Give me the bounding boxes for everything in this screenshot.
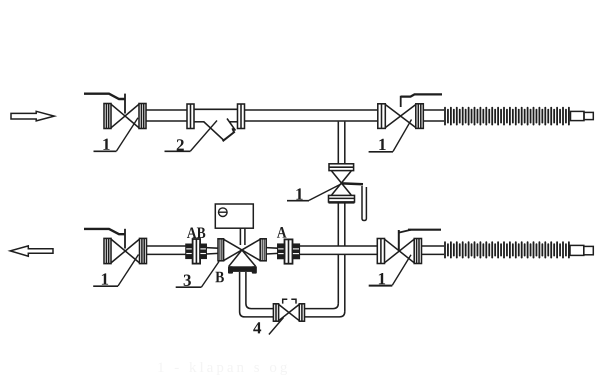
svg-text:1 - klapan s og: 1 - klapan s og: [157, 360, 290, 376]
